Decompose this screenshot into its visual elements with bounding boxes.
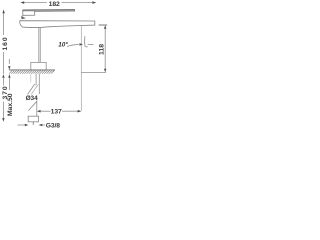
- reference line 118 top: [99, 24, 108, 26]
- extension line aerator: [80, 26, 82, 111]
- dimension G3/8 left arrow: [18, 124, 26, 126]
- dimension 370 top arrow: [2, 74, 4, 78]
- dimension 118 bottom arrow: [104, 69, 106, 73]
- svg-text:G3/8: G3/8: [46, 123, 60, 130]
- max50 bottom arrow: [8, 74, 10, 78]
- svg-text:10°: 10°: [58, 41, 68, 49]
- hose vertical lower: [36, 100, 38, 116]
- svg-text:Ø34: Ø34: [26, 95, 38, 102]
- hose diagonal upper right: [31, 84, 38, 94]
- svg-text:182: 182: [49, 1, 60, 8]
- shank outer faint line: [30, 74, 32, 83]
- body front edge: [38, 27, 40, 70]
- angle reference stroke: [85, 36, 88, 47]
- dimension 137 left arrow: [37, 110, 41, 113]
- svg-text:370: 370: [2, 85, 9, 99]
- hose connector box: [28, 116, 38, 122]
- shank right line: [38, 74, 40, 94]
- lever pivot hook: [22, 15, 23, 19]
- dimension 118 top arrow: [104, 25, 106, 29]
- dimension G3/8 right arrow: [39, 124, 43, 126]
- deck top line: [9, 69, 55, 71]
- max50 top arrow: [8, 59, 10, 64]
- angle arc arrowhead: [79, 43, 83, 46]
- dimension 118 line: [104, 28, 106, 71]
- base escutcheon box: [31, 62, 46, 70]
- reference line 118 bottom: [81, 71, 106, 73]
- svg-text:160: 160: [2, 36, 9, 50]
- dimension 370 line: [2, 78, 4, 86]
- hose diagonal lower: [28, 101, 37, 110]
- dimension 160 top arrow: [2, 10, 4, 14]
- dimension 182 line: [22, 2, 95, 4]
- shank left line: [35, 74, 37, 86]
- hose diagonal upper left: [28, 84, 35, 94]
- angle arc left: [67, 44, 79, 46]
- lever left block: [23, 11, 35, 16]
- body rear edge: [40, 28, 42, 70]
- angle arc right: [88, 43, 94, 45]
- lever handle bar: [23, 10, 75, 12]
- dimension 182 right arrow: [92, 1, 96, 4]
- svg-text:118: 118: [99, 44, 106, 55]
- svg-text:137: 137: [51, 109, 62, 116]
- deck hatching: [9, 70, 55, 74]
- dimension 137 right arrow: [78, 110, 82, 113]
- dimension 182 left arrow: [20, 1, 24, 4]
- dimension 137 line right: [62, 110, 78, 112]
- dimension 370 bottom arrow: [2, 118, 4, 122]
- connector stub: [32, 122, 34, 125]
- lever pivot wedge: [21, 16, 25, 19]
- dimension 160 line: [3, 11, 5, 35]
- spout blade: [20, 21, 95, 28]
